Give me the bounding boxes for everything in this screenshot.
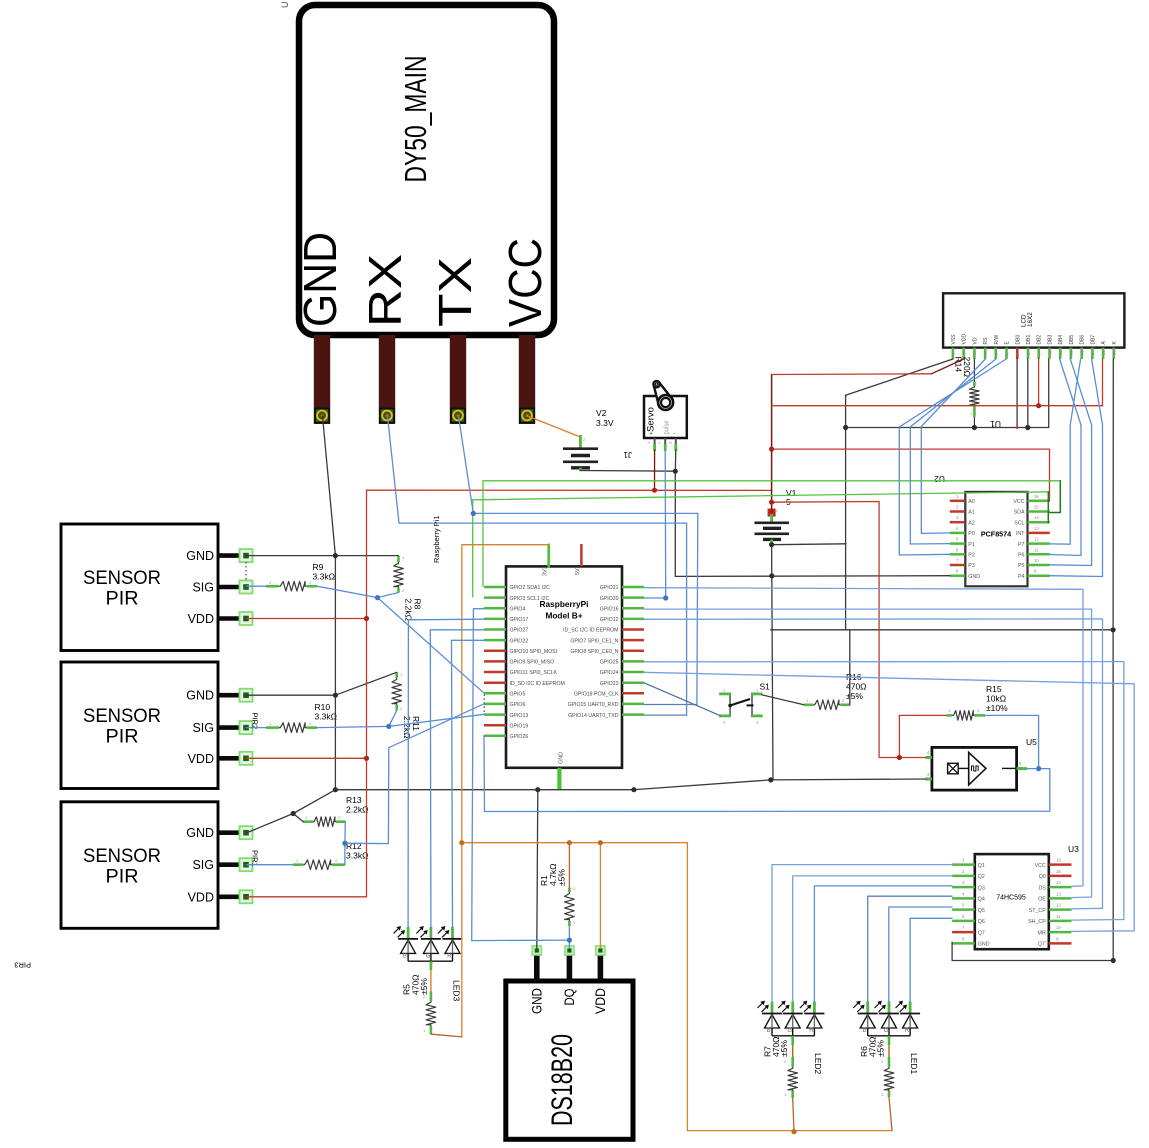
pin SDA of U2 — [1028, 510, 1050, 513]
pin GPIO3 SCL1 I2C of RaspberryPi — [484, 596, 506, 599]
module DS18B20 outline — [506, 981, 633, 1139]
pin P7 of U2 — [1028, 542, 1050, 545]
wire R11 bottom to junction — [389, 710, 397, 726]
svg-text:GPIO19: GPIO19 — [510, 723, 529, 729]
resistor R1 4.7k vertical — [568, 888, 571, 892]
pin GPIO13 of RaspberryPi — [484, 713, 506, 716]
svg-text:GND: GND — [294, 232, 346, 327]
svg-text:SENSOR: SENSOR — [83, 705, 161, 727]
svg-text:VDD: VDD — [188, 612, 214, 626]
LED group LED2 (B G R) — [771, 1002, 774, 1014]
svg-text:DB2: DB2 — [1037, 335, 1043, 345]
svg-text:DS18B20: DS18B20 — [546, 1034, 579, 1126]
svg-text:±5%: ±5% — [557, 869, 567, 886]
resistor R16 470 — [804, 703, 814, 706]
junction (black) — [333, 787, 338, 792]
pin DB0 of LCD U1 — [1016, 348, 1019, 359]
LED group LED3 (B G R) — [407, 927, 410, 939]
wire R13 pin2 down — [344, 822, 346, 844]
junction (black) — [673, 469, 678, 474]
pin P5 of U2 — [1028, 564, 1050, 567]
svg-text:P0: P0 — [968, 531, 975, 537]
junction (black) — [1025, 425, 1030, 430]
svg-text:P5: P5 — [1018, 563, 1025, 569]
wire SIG2 junction to GPIO13 — [389, 714, 484, 726]
wire GPIO23 to S1 — [644, 683, 721, 716]
battery V2 plates — [563, 447, 598, 450]
svg-text:GND: GND — [559, 752, 565, 764]
svg-text:14: 14 — [1056, 880, 1061, 885]
wire 5V bus to V1 — [367, 489, 772, 491]
svg-text:GPIO24: GPIO24 — [600, 670, 619, 676]
pin DQ of DS18B20 — [567, 954, 573, 981]
svg-text:DB1: DB1 — [1026, 335, 1032, 345]
pin 5 of U5 — [1017, 767, 1028, 770]
junction (black) — [769, 542, 774, 547]
svg-text:5V: 5V — [575, 568, 581, 575]
junction (blue) — [663, 595, 668, 600]
svg-text:3.3kΩ: 3.3kΩ — [313, 572, 335, 582]
svg-text:U: U — [280, 2, 290, 9]
pin DB3 of LCD U1 — [1048, 348, 1051, 359]
svg-text:GPIO16: GPIO16 — [600, 607, 619, 613]
resistor R13 2.2k — [303, 820, 313, 823]
pin GPIO17 of RaspberryPi — [484, 618, 506, 621]
pad VCC of DY50 — [520, 409, 534, 423]
wire LCD VDD diagonal — [931, 359, 963, 374]
junction (blue) — [1036, 766, 1041, 771]
pad GND of SENSOR PIR 3 — [240, 826, 253, 839]
svg-text:SIG: SIG — [192, 858, 214, 872]
wire R7 feed — [793, 1098, 794, 1132]
svg-text:SENSOR: SENSOR — [83, 567, 161, 589]
svg-text:R12: R12 — [346, 841, 362, 851]
svg-text:Q7': Q7' — [1038, 942, 1046, 948]
svg-text:±5%: ±5% — [846, 691, 863, 701]
wire V1 plus vertical — [771, 375, 773, 513]
wire V1 to U5 supply — [772, 502, 926, 758]
wire R1 top feed — [568, 843, 570, 888]
wire SIG1 from pad — [247, 585, 267, 587]
wire SDA bus — [483, 481, 1060, 587]
svg-text:GPIO6: GPIO6 — [510, 702, 526, 708]
pin GIPO10 SPI0_MOSI of RaspberryPi — [484, 650, 506, 653]
svg-text:R/W: R/W — [994, 335, 1000, 345]
svg-text:Q6: Q6 — [978, 919, 985, 925]
pin DB5 of LCD U1 — [1070, 348, 1073, 359]
wire SCL bus — [473, 492, 1049, 597]
module SENSOR PIR 3 outline — [61, 802, 218, 929]
svg-text:3.3kΩ: 3.3kΩ — [346, 851, 368, 861]
svg-text:PIR: PIR — [106, 588, 139, 610]
pin Q2 of U3 — [952, 875, 975, 878]
pin GPIO27 of RaspberryPi — [484, 628, 506, 631]
svg-text:14: 14 — [1034, 515, 1039, 520]
svg-text:LED3: LED3 — [451, 980, 461, 1002]
pin 5V of RaspberryPi — [580, 544, 583, 566]
pad VDD of SENSOR PIR 1 — [240, 612, 253, 625]
pin GPIO19 of RaspberryPi — [484, 724, 506, 727]
wire servo minus to U2 GND — [675, 575, 950, 578]
wire servo pulse to GPIO20 — [644, 450, 666, 598]
svg-text:Q2: Q2 — [978, 874, 985, 880]
pin GPIO25 of RaspberryPi — [622, 660, 644, 663]
svg-text:VDD: VDD — [592, 988, 608, 1014]
IC U2 PCF8574 outline — [965, 492, 1027, 586]
pin P4 of U2 — [1028, 574, 1050, 577]
pad VDD of SENSOR PIR 3 — [240, 890, 253, 903]
pin INT of U2 — [1028, 532, 1050, 535]
pad GND of SENSOR PIR 2 — [240, 689, 253, 702]
wire V2 minus — [580, 470, 675, 473]
wire R8 bottom to junction — [378, 593, 399, 598]
pin 2 of battery V2 — [579, 435, 582, 448]
pin GPIO2 SDA1 I2C of RaspberryPi — [484, 586, 506, 589]
resistor R11 2.2k vertical — [395, 672, 398, 678]
pin GPIO18 PCM_CLK of RaspberryPi — [622, 692, 644, 695]
svg-text:VCC: VCC — [1013, 499, 1024, 505]
svg-text:SH_CP: SH_CP — [1028, 919, 1046, 925]
pin VDD of DS18B20 — [598, 954, 604, 981]
svg-text:GPIO21: GPIO21 — [600, 585, 619, 591]
pin GPIO9 SPI0_MISO of RaspberryPi — [484, 660, 506, 663]
svg-text:13: 13 — [1056, 891, 1061, 896]
pin VCC of U2 — [1028, 500, 1050, 503]
wire GPIO21 to U3 DS — [644, 588, 1083, 887]
svg-text:GND: GND — [968, 574, 980, 580]
pin VD of LCD U1 — [973, 348, 976, 359]
wire ground to U5 pin3 — [771, 778, 926, 781]
svg-text:2.2kΩ: 2.2kΩ — [346, 805, 368, 815]
junction (red) — [1036, 403, 1041, 408]
wire GPIO25 to U3 SH_CP — [644, 662, 1124, 921]
svg-text:GPIO13: GPIO13 — [510, 713, 529, 719]
svg-text:GPIO7 SPI0_CE1_N: GPIO7 SPI0_CE1_N — [570, 638, 618, 644]
svg-text:GPIO15 UART0_RXD: GPIO15 UART0_RXD — [568, 702, 619, 708]
wire V1 to LCD VDD — [772, 373, 932, 376]
svg-text:GIPO10 SPI0_MOSI: GIPO10 SPI0_MOSI — [510, 649, 558, 655]
junction (black) — [631, 787, 636, 792]
svg-text:G: G — [426, 953, 431, 959]
svg-text:13: 13 — [1080, 350, 1085, 355]
pin DB7 of LCD U1 — [1091, 348, 1094, 359]
pin 1 of battery V1 — [770, 539, 773, 544]
pin A0 of U2 — [950, 500, 966, 503]
svg-text:V2: V2 — [596, 408, 607, 418]
junction (black) — [333, 553, 338, 558]
wire U3 GND return — [952, 942, 1113, 960]
wire R10 to junction — [317, 726, 389, 727]
svg-text:74HC595: 74HC595 — [996, 895, 1026, 902]
svg-text:DB3: DB3 — [1048, 335, 1054, 345]
IC U1 LCD outline — [943, 293, 1124, 347]
pin TX of DY50 (copper leg) — [450, 335, 466, 424]
pin OE of U3 — [1049, 897, 1072, 900]
wire V1 minus to VSS vertical — [772, 543, 847, 546]
svg-text:DB0: DB0 — [1015, 335, 1021, 345]
wire GPIO4 to DQ — [472, 609, 570, 941]
wire LCD backlight bus — [772, 405, 1103, 407]
wire 3V3 rail to R5 — [431, 1034, 462, 1037]
wire DB0 down — [1016, 359, 1018, 428]
svg-text:LED2: LED2 — [813, 1053, 823, 1075]
pin A of LCD U1 — [1102, 348, 1105, 359]
svg-text:14: 14 — [1090, 350, 1095, 355]
junction (red) — [652, 488, 657, 493]
switch S1 actuator — [730, 699, 750, 706]
svg-text:PIR: PIR — [106, 865, 139, 887]
wire R15 pin2 to U5 node — [985, 715, 1039, 768]
svg-text:GPIO18 PCM_CLK: GPIO18 PCM_CLK — [574, 692, 619, 698]
svg-text:PIR3: PIR3 — [14, 961, 31, 970]
svg-text:LED1: LED1 — [909, 1053, 919, 1075]
resistor R6 470 vertical — [888, 1036, 891, 1045]
wire U3 Q4 to LED1 B — [868, 896, 952, 1002]
resistor R12 3.3k — [293, 863, 303, 866]
svg-text:ID_SC I2C ID EEPROM: ID_SC I2C ID EEPROM — [563, 628, 618, 634]
wire 3V3 rail left and down — [462, 545, 549, 1037]
svg-text:±5%: ±5% — [419, 978, 429, 995]
wire U3 Q1 to LED2 B — [772, 865, 952, 1002]
svg-text:R13: R13 — [346, 795, 362, 805]
svg-text:GND: GND — [978, 942, 990, 948]
svg-text:GND: GND — [528, 988, 544, 1014]
svg-text:16: 16 — [1034, 494, 1039, 499]
resistor R7 470 vertical — [791, 1036, 794, 1045]
svg-text:P2: P2 — [968, 553, 975, 559]
pin GPIO7 SPI0_CE1_N of RaspberryPi — [622, 639, 644, 642]
IC U3 74HC595 outline — [975, 854, 1049, 949]
pad GND of DY50 — [315, 409, 329, 423]
module U4 DY50_MAIN outline — [299, 5, 554, 335]
svg-text:11: 11 — [1058, 350, 1063, 355]
LED group LED1 (B G R) — [866, 1002, 869, 1014]
pin GND of DY50 (copper leg) — [314, 335, 330, 424]
svg-text:SDA: SDA — [1014, 510, 1025, 516]
junction (black) — [843, 425, 848, 430]
wire VDD sensor3 — [247, 896, 367, 898]
wire 3V3 stub corner — [547, 545, 550, 567]
svg-text:J1: J1 — [623, 450, 632, 459]
svg-text:16X2: 16X2 — [1027, 312, 1034, 327]
svg-text:SCL: SCL — [1014, 520, 1024, 526]
wire VD to R14 — [973, 359, 975, 382]
wire 3V3 rail horizontal — [462, 842, 688, 844]
junction (black) — [1111, 958, 1116, 963]
svg-text:A2: A2 — [968, 520, 975, 526]
switch S1 left contact — [729, 694, 731, 716]
wire R16 to ground bus — [849, 630, 851, 705]
junction (blue) — [342, 841, 347, 846]
pad RX of DY50 — [380, 409, 394, 423]
wire servo minus vertical — [674, 450, 677, 576]
svg-text:3.3V: 3.3V — [596, 418, 614, 428]
wire sensor GND vertical bus — [334, 556, 336, 790]
wire R9 to junction — [317, 586, 378, 597]
svg-text:OE: OE — [1038, 897, 1046, 903]
pin ST_CP of U3 — [1049, 908, 1072, 911]
svg-text:G: G — [788, 1028, 793, 1034]
junction (red) — [364, 616, 369, 621]
ratsnest dotted GPIO5-GPIO13 — [483, 695, 485, 715]
wire VDD sensor2 — [247, 757, 367, 759]
svg-text:DQ: DQ — [561, 988, 577, 1005]
junction (orange) — [567, 840, 572, 845]
pin VCC of U3 — [1049, 863, 1072, 866]
pin VSS of LCD U1 — [952, 348, 955, 359]
pin GPIO24 of RaspberryPi — [622, 671, 644, 674]
pin A2 of U2 — [950, 521, 966, 524]
pin ID_SC I2C ID EEPROM of RaspberryPi — [622, 628, 644, 631]
wire GND sensor3 diagonal — [247, 790, 336, 833]
svg-text:±5%: ±5% — [779, 1040, 789, 1057]
junction (blue) — [386, 724, 391, 729]
pin 4 of U5 — [926, 756, 932, 759]
pin GND of U3 — [952, 942, 975, 945]
junction (black) — [1111, 627, 1116, 632]
svg-text:SIG: SIG — [192, 721, 214, 735]
svg-text:VSS: VSS — [951, 334, 957, 345]
wire GPIO26 to U5 output — [484, 736, 1050, 812]
pin DB2 of LCD U1 — [1037, 348, 1040, 359]
svg-text:10: 10 — [1047, 350, 1052, 355]
svg-text:2.2kΩ: 2.2kΩ — [402, 716, 412, 738]
svg-text:GPIO25: GPIO25 — [600, 660, 619, 666]
svg-text:P6: P6 — [1018, 553, 1025, 559]
junction (red) — [769, 447, 774, 452]
pin SCL of U2 — [1028, 521, 1050, 524]
svg-text:Q0: Q0 — [1039, 874, 1046, 880]
pin GPIO14 UART0_TXD of RaspberryPi — [622, 713, 644, 716]
pad TX of DY50 — [451, 409, 465, 423]
module SENSOR PIR 2 outline — [61, 662, 218, 789]
svg-text:P4: P4 — [1018, 574, 1025, 580]
svg-text:±5%: ±5% — [876, 1040, 886, 1057]
svg-text:MR: MR — [1038, 930, 1046, 936]
battery V1 plates — [755, 521, 790, 524]
svg-text:B: B — [403, 953, 407, 959]
pin GPIO4 of RaspberryPi — [484, 607, 506, 610]
svg-text:10: 10 — [1034, 558, 1039, 563]
pin GPIO16 of RaspberryPi — [622, 607, 644, 610]
wire R12 pin2 up — [344, 843, 346, 865]
svg-text:15: 15 — [1101, 350, 1106, 355]
wire SIG2 from pad — [247, 727, 267, 729]
module J1 servo outline — [644, 396, 687, 438]
wire LCD A down — [1102, 359, 1104, 406]
pin P6 of U2 — [1028, 553, 1050, 556]
svg-text:12: 12 — [1056, 903, 1061, 908]
svg-text:GPIO26: GPIO26 — [510, 734, 529, 740]
svg-text:DS: DS — [1038, 885, 1046, 891]
junction (blue) — [375, 595, 380, 600]
junction (red) — [769, 500, 774, 505]
wire DB1 down — [1027, 359, 1029, 428]
pin DS of U3 — [1049, 886, 1072, 889]
pin GPIO8 SPI0_CE0_N of RaspberryPi — [622, 650, 644, 653]
symbol crystal X-box in U5 — [948, 763, 959, 774]
wire GPIO17 to LED3 B — [408, 619, 484, 927]
svg-text:Q7: Q7 — [978, 930, 985, 936]
svg-text:R: R — [809, 1028, 814, 1034]
IC Raspberry Pi1 outline — [506, 566, 622, 767]
pin P3 of U2 — [950, 564, 966, 567]
svg-text:GPIO3 SCL1 I2C: GPIO3 SCL1 I2C — [510, 596, 550, 602]
wire GPIO27 to LED3 G — [430, 630, 484, 927]
svg-text:PIR: PIR — [106, 726, 139, 748]
svg-text:GPIO14 UART0_TXD: GPIO14 UART0_TXD — [568, 713, 619, 719]
wire S1 to R16 — [762, 695, 804, 705]
junction (blue) — [567, 938, 572, 943]
wire DB2 down — [1038, 359, 1040, 406]
IC U5 outline — [932, 747, 1017, 790]
pin RS of LCD U1 — [984, 348, 987, 359]
pin Q6 of U3 — [952, 920, 975, 923]
svg-text:-: - — [673, 430, 675, 437]
wire R14 to ground bus — [973, 417, 975, 428]
svg-text:A0: A0 — [968, 499, 975, 505]
pin GPIO11 SPI0_SCLK of RaspberryPi — [484, 671, 506, 674]
svg-text:DB5: DB5 — [1069, 335, 1075, 345]
pin RX of DY50 (copper leg) — [379, 335, 395, 424]
svg-text:INT: INT — [1016, 531, 1025, 537]
svg-text:3.3kΩ: 3.3kΩ — [315, 712, 337, 722]
wire SIG3 from pad — [247, 864, 294, 866]
svg-text:VCC: VCC — [499, 238, 551, 327]
wire GND sensor1 to R8 — [247, 555, 399, 557]
svg-text:pulse: pulse — [664, 420, 671, 434]
pin DB6 of LCD U1 — [1080, 348, 1083, 359]
svg-text:G: G — [884, 1028, 889, 1034]
resistor R9 3.3k — [266, 585, 279, 588]
pad SIG of SENSOR PIR 3 — [240, 858, 253, 871]
pad GND of DS18B20 — [532, 946, 541, 955]
svg-text:P1: P1 — [968, 542, 975, 548]
svg-text:GPIO17: GPIO17 — [510, 617, 529, 623]
wire GND sensor2 — [247, 694, 336, 696]
wire DY50 VCC to V2 — [528, 416, 581, 437]
wire R6 feed — [889, 1097, 892, 1131]
symbol amplifier triangle in U5 — [969, 752, 986, 785]
pin Q7 of U3 — [952, 931, 975, 934]
wire output inside U5 — [1002, 767, 1017, 769]
pin E of LCD U1 — [1005, 348, 1008, 359]
svg-text:U2: U2 — [934, 474, 945, 484]
svg-text:VDD: VDD — [188, 752, 214, 766]
wire VDD bus vertical — [366, 490, 368, 897]
wire SIG3 to GPIO6 — [345, 704, 484, 844]
junction (black) — [291, 811, 296, 816]
junction (red) — [364, 756, 369, 761]
svg-text:GPIO9 SPI0_MISO: GPIO9 SPI0_MISO — [510, 660, 555, 666]
wire ground bus under RPi — [335, 780, 770, 790]
svg-text:SENSOR: SENSOR — [83, 845, 161, 867]
pin 2 of servo J1 — [664, 438, 666, 444]
svg-text:GPIO22: GPIO22 — [510, 638, 529, 644]
svg-text:470Ω: 470Ω — [846, 682, 867, 692]
wire LCD E to U2 P2 — [899, 359, 1006, 555]
svg-text:2.2kΩ: 2.2kΩ — [404, 599, 414, 621]
svg-text:Model B+: Model B+ — [545, 611, 582, 621]
svg-text:SIG: SIG — [192, 581, 214, 595]
junction (black) — [768, 777, 773, 782]
svg-text:Q4: Q4 — [978, 897, 985, 903]
pin R/W of LCD U1 — [994, 348, 997, 359]
svg-text:VCC: VCC — [1035, 863, 1046, 869]
pin 1 of battery V2 — [579, 468, 582, 471]
svg-text:A1: A1 — [968, 510, 975, 516]
pin GPIO12 of RaspberryPi — [622, 618, 644, 621]
